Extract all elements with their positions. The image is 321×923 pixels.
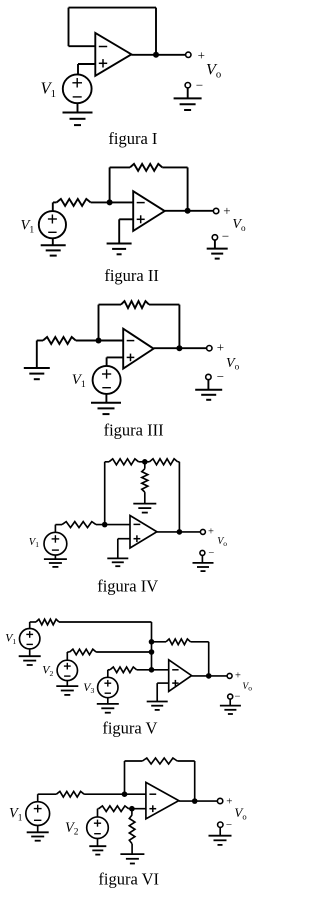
wire input right bbox=[96, 524, 130, 526]
wire input left bbox=[37, 340, 43, 342]
terminal - output bbox=[185, 78, 203, 93]
label V3 bbox=[83, 681, 94, 695]
svg-text:+: + bbox=[226, 796, 232, 808]
source V2 bbox=[57, 660, 77, 680]
terminal + output bbox=[200, 527, 214, 538]
wire summing vertical bbox=[151, 622, 153, 670]
wire fb top right bbox=[178, 461, 180, 463]
ground output bbox=[220, 706, 241, 714]
svg-text:−: − bbox=[226, 819, 232, 831]
resistor feedback B bbox=[150, 459, 178, 465]
terminal - output bbox=[228, 692, 241, 703]
wire output bbox=[154, 347, 207, 349]
resistor V2 bbox=[99, 806, 129, 812]
node inverting bbox=[102, 522, 108, 528]
resistor V1 bbox=[56, 791, 84, 797]
wire left ground stub bbox=[36, 341, 38, 369]
wire feedback up bbox=[124, 761, 126, 794]
node output bbox=[192, 798, 198, 804]
wire terminal ground bbox=[214, 240, 216, 249]
resistor feedback bbox=[166, 639, 191, 645]
op-amp U1 bbox=[146, 782, 179, 818]
source V1 bbox=[63, 74, 92, 103]
wire fb top mid bbox=[139, 461, 150, 463]
wire feedback down bbox=[178, 462, 180, 532]
ground V1 bbox=[91, 403, 121, 414]
wire output bbox=[157, 531, 201, 533]
wire terminal ground bbox=[187, 88, 189, 99]
node inverting bbox=[149, 667, 155, 673]
wire V3 b bbox=[137, 669, 169, 671]
resistor V3 bbox=[110, 667, 137, 673]
wire noninverting bbox=[118, 539, 130, 559]
wire output bbox=[165, 210, 214, 212]
wire feedback top bbox=[69, 7, 157, 9]
wire noninverting bbox=[119, 219, 133, 243]
ground mid bbox=[133, 504, 156, 513]
wire V1 b bbox=[59, 621, 152, 623]
wire fb top left bbox=[105, 461, 109, 463]
wire feedback up bbox=[109, 167, 111, 202]
op-amp U1 bbox=[133, 191, 165, 231]
label V1 bbox=[21, 218, 35, 236]
wire Rg up bbox=[131, 809, 133, 815]
node output bbox=[176, 345, 182, 351]
wire feedback down bbox=[208, 642, 210, 676]
wire output bbox=[179, 800, 218, 802]
label V1 bbox=[29, 537, 39, 549]
caption figura VI bbox=[98, 870, 159, 889]
wire feedback b bbox=[191, 641, 209, 643]
svg-text:+: + bbox=[217, 340, 224, 355]
terminal + output bbox=[186, 48, 205, 63]
wire feedback a bbox=[125, 760, 143, 762]
terminal - output bbox=[212, 229, 229, 244]
wire V1 ground bbox=[37, 826, 39, 833]
ground noninverting bbox=[147, 702, 168, 710]
wire V1 stub bbox=[29, 622, 31, 629]
wire V2 b bbox=[96, 651, 151, 653]
wire V1 ground bbox=[105, 394, 107, 403]
svg-text:Vo: Vo bbox=[242, 682, 252, 693]
wire V2 stub bbox=[66, 652, 68, 660]
label Vo bbox=[234, 805, 246, 822]
terminal + output bbox=[227, 671, 241, 682]
wire mid resistor down bbox=[144, 492, 146, 504]
wire feedback down bbox=[187, 167, 189, 210]
label V1 bbox=[5, 632, 16, 646]
caption figura III bbox=[104, 421, 164, 440]
wire V1 stub bbox=[54, 525, 56, 533]
resistor mid vertical bbox=[142, 469, 148, 492]
wire V1 ground bbox=[77, 103, 79, 113]
svg-text:−: − bbox=[196, 78, 203, 93]
resistor input bbox=[43, 337, 76, 344]
wire feedback right bbox=[149, 304, 179, 306]
ground noninverting bbox=[107, 558, 128, 566]
svg-text:figura III: figura III bbox=[104, 421, 164, 440]
ground output bbox=[174, 98, 202, 110]
wire V1 a bbox=[30, 621, 36, 623]
source V3 bbox=[98, 677, 118, 697]
wire feedback a bbox=[152, 641, 167, 643]
svg-text:+: + bbox=[208, 527, 214, 538]
ground V1 bbox=[63, 113, 93, 126]
node inverting bbox=[107, 199, 113, 205]
node output bbox=[153, 52, 159, 58]
label V2 bbox=[65, 820, 79, 838]
svg-text:−: − bbox=[208, 548, 214, 559]
wire feedback down bbox=[194, 761, 196, 801]
node output bbox=[177, 529, 183, 535]
ground V1 bbox=[27, 832, 49, 840]
resistor input bbox=[62, 522, 96, 528]
ground V1 bbox=[41, 245, 66, 255]
wire input left bbox=[53, 201, 57, 203]
wire noninverting input bbox=[78, 64, 95, 75]
label Vo bbox=[206, 60, 221, 80]
svg-text:figura V: figura V bbox=[102, 719, 157, 738]
wire feedback left bbox=[110, 166, 130, 168]
ground V1 bbox=[44, 559, 67, 567]
wire V1 stub bbox=[37, 794, 39, 802]
resistor feedback bbox=[130, 164, 162, 171]
svg-text:figura VI: figura VI bbox=[98, 870, 159, 889]
resistor Rg vertical bbox=[129, 815, 135, 844]
op-amp U1 bbox=[95, 33, 131, 76]
ground output bbox=[195, 390, 222, 400]
wire terminal ground bbox=[219, 828, 221, 836]
wire V2 a bbox=[67, 651, 69, 653]
label V2 bbox=[42, 664, 53, 678]
op-amp U1 bbox=[123, 329, 153, 369]
wire input a bbox=[38, 793, 57, 795]
wire to inverting input bbox=[69, 45, 96, 47]
wire V2 a bbox=[98, 808, 99, 810]
wire noninverting bbox=[157, 683, 169, 701]
wire V2 ground bbox=[66, 681, 68, 687]
svg-text:+: + bbox=[198, 48, 205, 63]
resistor V2 bbox=[70, 649, 97, 655]
source V1 bbox=[26, 802, 50, 826]
ground noninverting bbox=[107, 244, 132, 255]
wire V3 stub bbox=[107, 670, 109, 678]
label Vo bbox=[226, 356, 240, 372]
ground output bbox=[207, 249, 228, 259]
node noninverting bbox=[129, 806, 135, 812]
label V1 bbox=[41, 79, 57, 100]
wire feedback down bbox=[178, 305, 180, 349]
wire terminal ground bbox=[229, 699, 231, 706]
wire output bbox=[131, 54, 185, 56]
svg-text:figura II: figura II bbox=[104, 266, 159, 285]
wire feedback right bbox=[155, 8, 157, 55]
wire V1 ground bbox=[29, 649, 31, 656]
terminal + output bbox=[207, 340, 224, 355]
wire terminal ground bbox=[207, 380, 209, 390]
label V1 bbox=[9, 805, 23, 823]
wire input right bbox=[91, 201, 134, 203]
wire V1 ground bbox=[54, 555, 56, 559]
wire V1 ground bbox=[52, 238, 54, 245]
label Vo bbox=[232, 217, 246, 233]
terminal - output bbox=[218, 819, 233, 831]
ground V3 bbox=[97, 704, 119, 713]
node feedback bbox=[149, 639, 155, 645]
ground output bbox=[209, 836, 232, 845]
svg-text:−: − bbox=[217, 369, 224, 384]
svg-text:−: − bbox=[222, 229, 229, 244]
terminal + output bbox=[213, 203, 230, 218]
wire V2 ground bbox=[97, 839, 99, 846]
ground output bbox=[193, 563, 214, 571]
ground V2 bbox=[89, 846, 106, 854]
label V1 bbox=[72, 372, 86, 390]
svg-text:−: − bbox=[235, 692, 241, 703]
resistor feedback A bbox=[109, 459, 139, 465]
node feedback mid bbox=[142, 459, 148, 465]
node V2 join bbox=[149, 649, 155, 655]
wire output bbox=[192, 675, 228, 677]
op-amp U1 bbox=[130, 516, 157, 549]
wire feedback right bbox=[162, 166, 187, 168]
source V2 bbox=[87, 817, 109, 839]
terminal - output bbox=[200, 548, 214, 559]
source V1 bbox=[93, 366, 121, 394]
svg-text:figura I: figura I bbox=[108, 129, 157, 148]
node inverting bbox=[122, 791, 128, 797]
label Vo bbox=[217, 536, 227, 548]
resistor V1 bbox=[36, 619, 59, 625]
source V1 bbox=[20, 629, 40, 649]
wire feedback up bbox=[104, 462, 106, 525]
caption figura I bbox=[108, 129, 157, 148]
wire feedback up bbox=[98, 305, 100, 341]
source V1 bbox=[44, 532, 67, 555]
svg-text:+: + bbox=[235, 671, 241, 682]
resistor feedback bbox=[142, 758, 177, 764]
op-amp U1 bbox=[169, 660, 192, 692]
caption figura V bbox=[102, 719, 157, 738]
node output bbox=[185, 208, 191, 214]
node output bbox=[206, 673, 212, 679]
ground left bbox=[24, 368, 50, 379]
caption figura IV bbox=[97, 577, 158, 596]
terminal - output bbox=[206, 369, 224, 384]
caption figura II bbox=[104, 266, 159, 285]
wire feedback left bbox=[68, 8, 70, 47]
ground V2 bbox=[56, 686, 78, 695]
svg-text:+: + bbox=[223, 203, 230, 218]
wire V2 b bbox=[129, 808, 146, 810]
wire input left bbox=[55, 524, 62, 526]
svg-text:figura IV: figura IV bbox=[97, 577, 158, 596]
wire V2 stub bbox=[97, 809, 99, 817]
wire input b bbox=[84, 793, 146, 795]
terminal + output bbox=[217, 796, 232, 808]
wire mid resistor up bbox=[144, 462, 146, 469]
ground V1 bbox=[19, 656, 41, 665]
resistor input bbox=[57, 199, 91, 206]
wire terminal ground bbox=[201, 555, 203, 563]
ground Rg bbox=[120, 854, 144, 863]
wire V1 stub bbox=[52, 202, 54, 211]
wire feedback left bbox=[99, 304, 122, 306]
wire feedback b bbox=[177, 760, 194, 762]
wire V3 ground bbox=[107, 698, 109, 704]
wire Rg down bbox=[131, 844, 133, 854]
wire noninverting bbox=[107, 357, 124, 366]
label Vo bbox=[242, 682, 252, 693]
wire V3 a bbox=[108, 669, 110, 671]
node inverting bbox=[96, 338, 102, 344]
resistor feedback bbox=[121, 301, 149, 308]
source V1 bbox=[39, 211, 66, 238]
wire input right bbox=[76, 340, 123, 342]
